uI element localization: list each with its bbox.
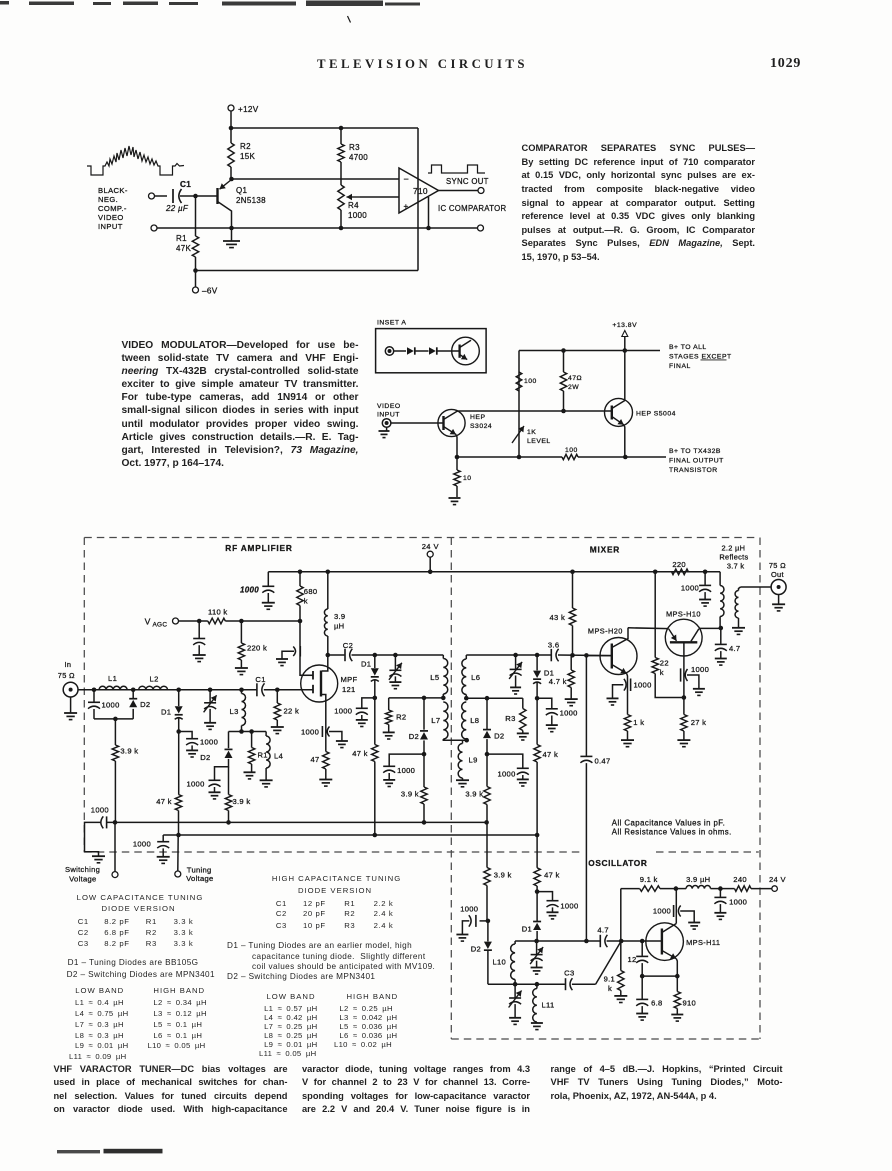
svg-text:Switching: Switching [65,865,100,874]
inductor 3.9uH drain choke [324,572,327,655]
ground In terminal [64,697,77,720]
svg-text:47 k: 47 k [156,797,172,806]
wire output link [741,586,772,588]
svg-text:9.1: 9.1 [604,975,615,984]
resistor R2 mixer [383,698,395,739]
svg-text:BLACK-: BLACK- [98,186,128,195]
wire tuning voltage rail [163,834,537,836]
label R3 4700 [349,143,368,162]
node H11 collector junction [674,886,679,891]
node Q1 collector junction [229,226,234,231]
resistor 680k [297,572,303,621]
svg-text:0.47: 0.47 [595,757,611,766]
wire C3 diagonal link [596,941,622,984]
resistor 110k [208,618,300,624]
label 100 bottom [565,447,578,454]
label VIDEO INPUT modulator [377,403,401,419]
text block tuner caption column 1 [54,1063,288,1076]
label 1000 D2 interstage [397,766,415,775]
terminal 24V oscillator [772,886,778,892]
svg-text:1000: 1000 [691,665,709,674]
svg-text:D2: D2 [494,732,504,741]
transistor inset [452,337,480,365]
node 12 cap junction [640,939,645,944]
capacitor 1000 D1 mixer bypass [537,698,558,731]
svg-text:R2: R2 [396,713,406,722]
label 22 uF [165,204,189,213]
capacitor 1000 H10 base bypass [681,668,705,695]
node 220k junction [239,619,244,624]
variable capacitor mixer trimmer [509,655,522,694]
inductor L8 [462,702,467,740]
ground Q1 collector [223,228,240,248]
node D2 mixer-in junction [422,696,427,701]
svg-text:100: 100 [524,378,537,385]
svg-text:47K: 47K [176,244,191,253]
label C3 [564,969,575,978]
svg-text:C1: C1 [255,675,266,684]
label 3.6 [548,641,559,650]
ground 220k [235,668,248,675]
label D1 mixer [544,669,554,678]
terminal video input modulator [382,419,443,428]
svg-text:COMP.-: COMP.- [98,204,127,213]
capacitor 1000 D2 mixer bypass [487,754,529,786]
label L5 [430,673,439,682]
svg-text:3.9: 3.9 [334,612,345,621]
svg-text:3.9 k: 3.9 k [233,797,251,806]
op-amp U1 710 comparator [399,168,439,213]
wire L1 tank bottom [94,709,133,719]
svg-text:MPS-H10: MPS-H10 [666,610,701,619]
svg-text:4700: 4700 [349,153,368,162]
label OSCILLATOR [588,858,647,868]
node D2 mixer bottom junction [485,752,490,757]
node L6 L8 junction [464,696,469,701]
diode inset 1N914 first [407,347,429,354]
terminal inset input [385,347,406,355]
diode D2 RF second switching [215,732,233,780]
node 0.47 junction [584,653,589,658]
label 2.2uH Reflects 3.7k [719,544,748,571]
svg-text:24 V: 24 V [769,875,786,884]
label L7 [431,716,440,725]
capacitor 1000 switching line bypass [456,915,488,941]
svg-text:4.7 k: 4.7 k [549,677,567,686]
node D1 mixer junction [535,653,540,658]
label 240 [733,875,747,884]
diode inset 1N914 second [429,347,460,354]
capacitor C1 22uF [173,189,196,203]
node 3.9k RF junction [113,717,118,722]
label L4 [274,752,283,761]
wire comparator minus input line [232,178,400,180]
svg-text:3.7 k: 3.7 k [727,561,745,570]
svg-text:1000: 1000 [91,806,109,815]
node L5 L7 junction [441,696,446,701]
svg-text:D1: D1 [522,925,532,934]
svg-text:R4: R4 [348,201,359,210]
resistor 47 ohm 2W [560,351,566,412]
terminal tuning voltage [175,835,181,877]
table low capacitance tuning diode version [77,893,204,902]
svg-text:1000: 1000 [334,707,352,716]
resistor 240 [720,886,771,892]
node C1 output junction [193,194,198,199]
capacitor 1000 H20 emitter bypass [607,679,631,706]
wire H11 emitter line [642,975,677,977]
svg-text:L10: L10 [493,958,507,967]
svg-text:INPUT: INPUT [377,412,400,419]
wire osc supply line [620,889,622,941]
svg-text:Out: Out [771,570,784,579]
svg-text:2N5138: 2N5138 [236,196,266,205]
terminal 24V top [427,551,433,572]
label 1000 D2 second [187,780,205,789]
svg-text:VIDEO: VIDEO [377,403,401,410]
label B+ TO TX432B [669,448,724,474]
svg-text:910: 910 [683,999,697,1008]
svg-text:HEP S5004: HEP S5004 [636,411,676,418]
label SYNC OUT [446,177,489,186]
svg-text:S3024: S3024 [470,423,492,430]
label D2 oscillator [471,945,481,954]
node D2 mixer junction [485,696,490,701]
svg-text:OSCILLATOR: OSCILLATOR [588,858,647,868]
node R3 top junction [339,126,344,131]
svg-text:75 Ω: 75 Ω [769,561,786,570]
svg-text:L8: L8 [470,716,479,725]
transistor Q MPS-H20 [600,628,637,715]
svg-text:+: + [404,202,409,211]
svg-text:110 k: 110 k [208,608,228,617]
label 22k mixer [660,659,669,678]
svg-text:k: k [304,597,308,606]
label 1K LEVEL [527,429,551,445]
resistor 47k interstage tuning [372,698,378,835]
label 43 k [550,613,566,622]
svg-text:D2: D2 [409,732,419,741]
svg-text:100: 100 [565,447,578,454]
svg-text:Voltage: Voltage [69,874,96,883]
MOSFET MPF121 [300,655,338,725]
terminal switching voltage [112,822,118,877]
svg-text:3.9 k: 3.9 k [494,871,512,880]
potentiometer R4 1000 [338,185,399,228]
label R3 mixer [505,714,515,723]
svg-text:V: V [145,617,151,627]
label 75 ohm Out [769,561,786,579]
inductor L2 [139,686,168,690]
resistor 27k [677,698,690,747]
label 0.47 [595,757,611,766]
label 47 k oscillator [544,871,560,880]
resistor 910 [671,976,683,1021]
node D1 mixer-in junction [373,653,378,658]
wire mixer top line [466,654,612,657]
terminal +13.8V [612,322,637,351]
resistor 43k [569,572,575,656]
resistor 3.9k RF [112,719,118,823]
wire L3 bottom link [229,731,267,733]
svg-text:Voltage: Voltage [186,874,213,883]
wire -6V rail [196,128,419,271]
node L1 left junction [92,688,97,693]
label D1 RF [161,708,171,717]
node coil tap junction [464,738,469,743]
resistor 100 bottom [562,454,578,459]
svg-text:L2: L2 [150,675,159,684]
label 1000 rail bypass [240,586,259,595]
label 1000 D2 mixer [498,770,516,779]
svg-text:680: 680 [304,587,318,596]
wire H20 collector to H10 [628,627,669,630]
svg-text:AGC: AGC [153,622,168,629]
wire gate2 feed [300,621,313,675]
label 1000 D1 RF [200,738,218,747]
label D2 interstage [409,732,419,741]
label 1000 source [301,728,319,737]
capacitor C3 [566,978,573,990]
label C2 [343,641,354,650]
svg-text:L5: L5 [430,673,439,682]
label 27 k [691,718,707,727]
label all values note [612,818,732,836]
label 24 V oscillator [769,875,786,884]
wire RF input line [78,689,313,691]
diode D1 mixer varactor [533,655,541,698]
text block comparator caption [522,142,756,156]
label 3.9 k oscillator [494,871,512,880]
wire H10 collector [699,627,721,629]
label Q1 2N5138 [236,186,266,205]
capacitor VAGC bypass [193,621,206,662]
label HEP S3024 [470,414,492,430]
inductor L9 [456,740,469,787]
label 3.9 k RF [120,747,138,756]
node varcap mixer tank junction [513,653,518,658]
label 3.9 k mixer [465,790,483,799]
svg-text:D2: D2 [140,700,150,709]
inductor L1 [99,686,127,689]
diode D1 oscillator varactor [533,892,541,941]
label R1 47K [176,234,191,253]
transistor Q HEP S5004 [605,351,633,458]
node H11 base junction [619,939,624,944]
capacitor 1000 D2 interstage bypass [383,754,424,786]
label MIXER [590,545,620,555]
label 1000 H20 emitter [634,681,652,690]
svg-text:9.1 k: 9.1 k [640,875,658,884]
capacitor 1000 D2 second bypass [209,780,221,799]
svg-text:1000: 1000 [187,780,205,789]
inductor L5 [443,655,447,698]
note D1 D2 diodes high capacitance [227,941,412,950]
capacitor C1 tuner [257,683,265,696]
label L2 [150,675,159,684]
diode D2 RF switching [129,690,137,707]
svg-text:−: − [404,174,410,184]
label 47ohm 2W [568,375,582,391]
svg-text:3.9 k: 3.9 k [465,790,483,799]
svg-text:27 k: 27 k [691,718,707,727]
svg-text:1000: 1000 [498,770,516,779]
svg-text:22 µF: 22 µF [165,204,189,213]
svg-text:In: In [65,660,72,669]
resistor 47k mixer tuning [534,698,540,835]
svg-text:MPS-H11: MPS-H11 [686,938,720,947]
svg-text:L6: L6 [471,673,480,682]
label 9.1 k supply [640,875,658,884]
resistor R2 15K [228,128,234,179]
inset A box [376,329,487,373]
transistor Q HEP S3024 [438,409,465,457]
ground 22k [271,727,284,734]
label B+ TO ALL STAGES [669,344,732,370]
label 47 k mixer [543,750,559,759]
svg-text:1000: 1000 [133,840,151,849]
input waveform sketch [87,146,184,175]
svg-text:L4: L4 [274,752,283,761]
node drain junction [326,653,331,658]
resistor 3.9k RF second [225,767,231,823]
svg-text:TRANSISTOR: TRANSISTOR [669,467,718,474]
resistor 10 emitter [454,457,460,497]
svg-text:MPS-H20: MPS-H20 [588,627,623,636]
wire switching voltage rail [107,821,487,823]
text block tuner caption column 2 [302,1063,530,1076]
svg-text:IC COMPARATOR: IC COMPARATOR [438,204,507,213]
terminal lower output [478,225,484,231]
label +12V [238,105,259,114]
svg-text:47 k: 47 k [544,871,560,880]
svg-text:All Capacitance Values in pF.: All Capacitance Values in pF. [612,818,725,827]
diode D1 RF tuning varactor [175,690,183,732]
resistor 3.9k interstage [421,754,427,822]
label D2 mixer [494,732,504,741]
ground resistor 10 [449,498,461,505]
svg-text:Q1: Q1 [236,186,248,195]
label 220 k [247,644,267,653]
wire H11 collector lead [675,889,677,924]
text block video modulator caption [122,339,359,352]
svg-text:µH: µH [334,622,344,631]
label 12 [627,955,636,964]
capacitor C2 [328,649,444,661]
label R2 15K [240,142,255,161]
node switching rail junctions [113,820,489,825]
label R1 tuner [258,751,268,760]
svg-text:INPUT: INPUT [98,222,123,231]
resistor 22k gate1 [274,690,280,727]
svg-text:2W: 2W [568,384,579,391]
svg-text:12: 12 [627,955,636,964]
label 47 k interstage [352,749,368,758]
node D1 osc bottom junction [534,939,539,944]
terminal sync out [478,188,484,194]
svg-text:1000: 1000 [560,902,578,911]
ground 47 source [319,780,332,787]
svg-text:R3: R3 [505,714,515,723]
node 680k bottom junction [298,619,303,624]
label 1000 tuning line [560,902,578,911]
label 100 bias [524,378,537,385]
svg-text:1000: 1000 [460,905,478,914]
label 1000 switching rail [91,806,109,815]
svg-text:L1: L1 [108,674,117,683]
table high capacitance tuning diode version [272,874,401,883]
label L8 [470,716,479,725]
svg-text:SYNC OUT: SYNC OUT [446,177,489,186]
node 27k top junction [682,695,687,700]
node R1 top junction [249,729,254,734]
node minus rail junction [426,226,431,231]
label 3.9 k interstage [401,790,419,799]
node D1 RF junction [176,688,181,693]
svg-text:3.9 k: 3.9 k [401,790,419,799]
variable capacitor osc first [530,941,543,974]
ground Out terminal [772,595,785,611]
node H10 collector junction [719,626,724,631]
svg-text:+13.8V: +13.8V [612,322,637,329]
resistor 9.1k supply [621,886,676,892]
resistor 1k [621,715,634,747]
inductor L7 [443,702,466,740]
capacitor 1000 rail bypass RF [262,572,275,610]
terminal In 75 ohm [58,660,78,697]
node D1 interstage bottom junction [373,696,378,701]
capacitor 12 [636,941,648,976]
svg-text:47 k: 47 k [543,750,559,759]
svg-text:1 k: 1 k [633,718,644,727]
label D2 RF [140,700,150,709]
diode D1 interstage varactor [371,655,379,698]
node L10 bottom junction [513,982,518,987]
dashed enclosure tuner box [84,538,760,1040]
label R4 1000 [348,201,367,220]
label 3.9 uH oscillator [686,875,710,884]
terminal 75 ohm Out [771,580,786,595]
inductor L6 [462,655,466,698]
node S5004 collector junction [623,348,628,353]
table low band high band coil values version 2 [267,992,316,1001]
label 1 k [633,718,644,727]
wire oscillator tank line [515,940,662,942]
node emitter junction S3024 [455,455,460,460]
capacitor 3.6 coupling [551,649,558,661]
variable capacitor osc second [509,984,522,1024]
svg-text:D2: D2 [200,753,210,762]
inductor L11 [531,984,543,1029]
label Switching Voltage [65,865,100,883]
svg-text:1K: 1K [527,429,536,436]
svg-text:1000: 1000 [200,738,218,747]
node tuning rail junctions [176,833,539,838]
node emitter line right junction [675,974,680,979]
svg-text:FINAL OUTPUT: FINAL OUTPUT [669,458,724,465]
capacitor 4.7 osc coupling [600,935,607,947]
node L1 right junction [131,688,136,693]
label MPS-H20 [588,627,623,636]
node emitter line left junction [640,974,645,979]
resistor 100 bias [516,372,522,391]
wire comparator output [439,190,479,192]
node rail junctions [298,570,708,575]
text block tuner caption column 3 [551,1063,783,1076]
svg-text:B+ TO ALL: B+ TO ALL [669,344,707,351]
label R2 mixer [396,713,406,722]
svg-text:1000: 1000 [634,681,652,690]
